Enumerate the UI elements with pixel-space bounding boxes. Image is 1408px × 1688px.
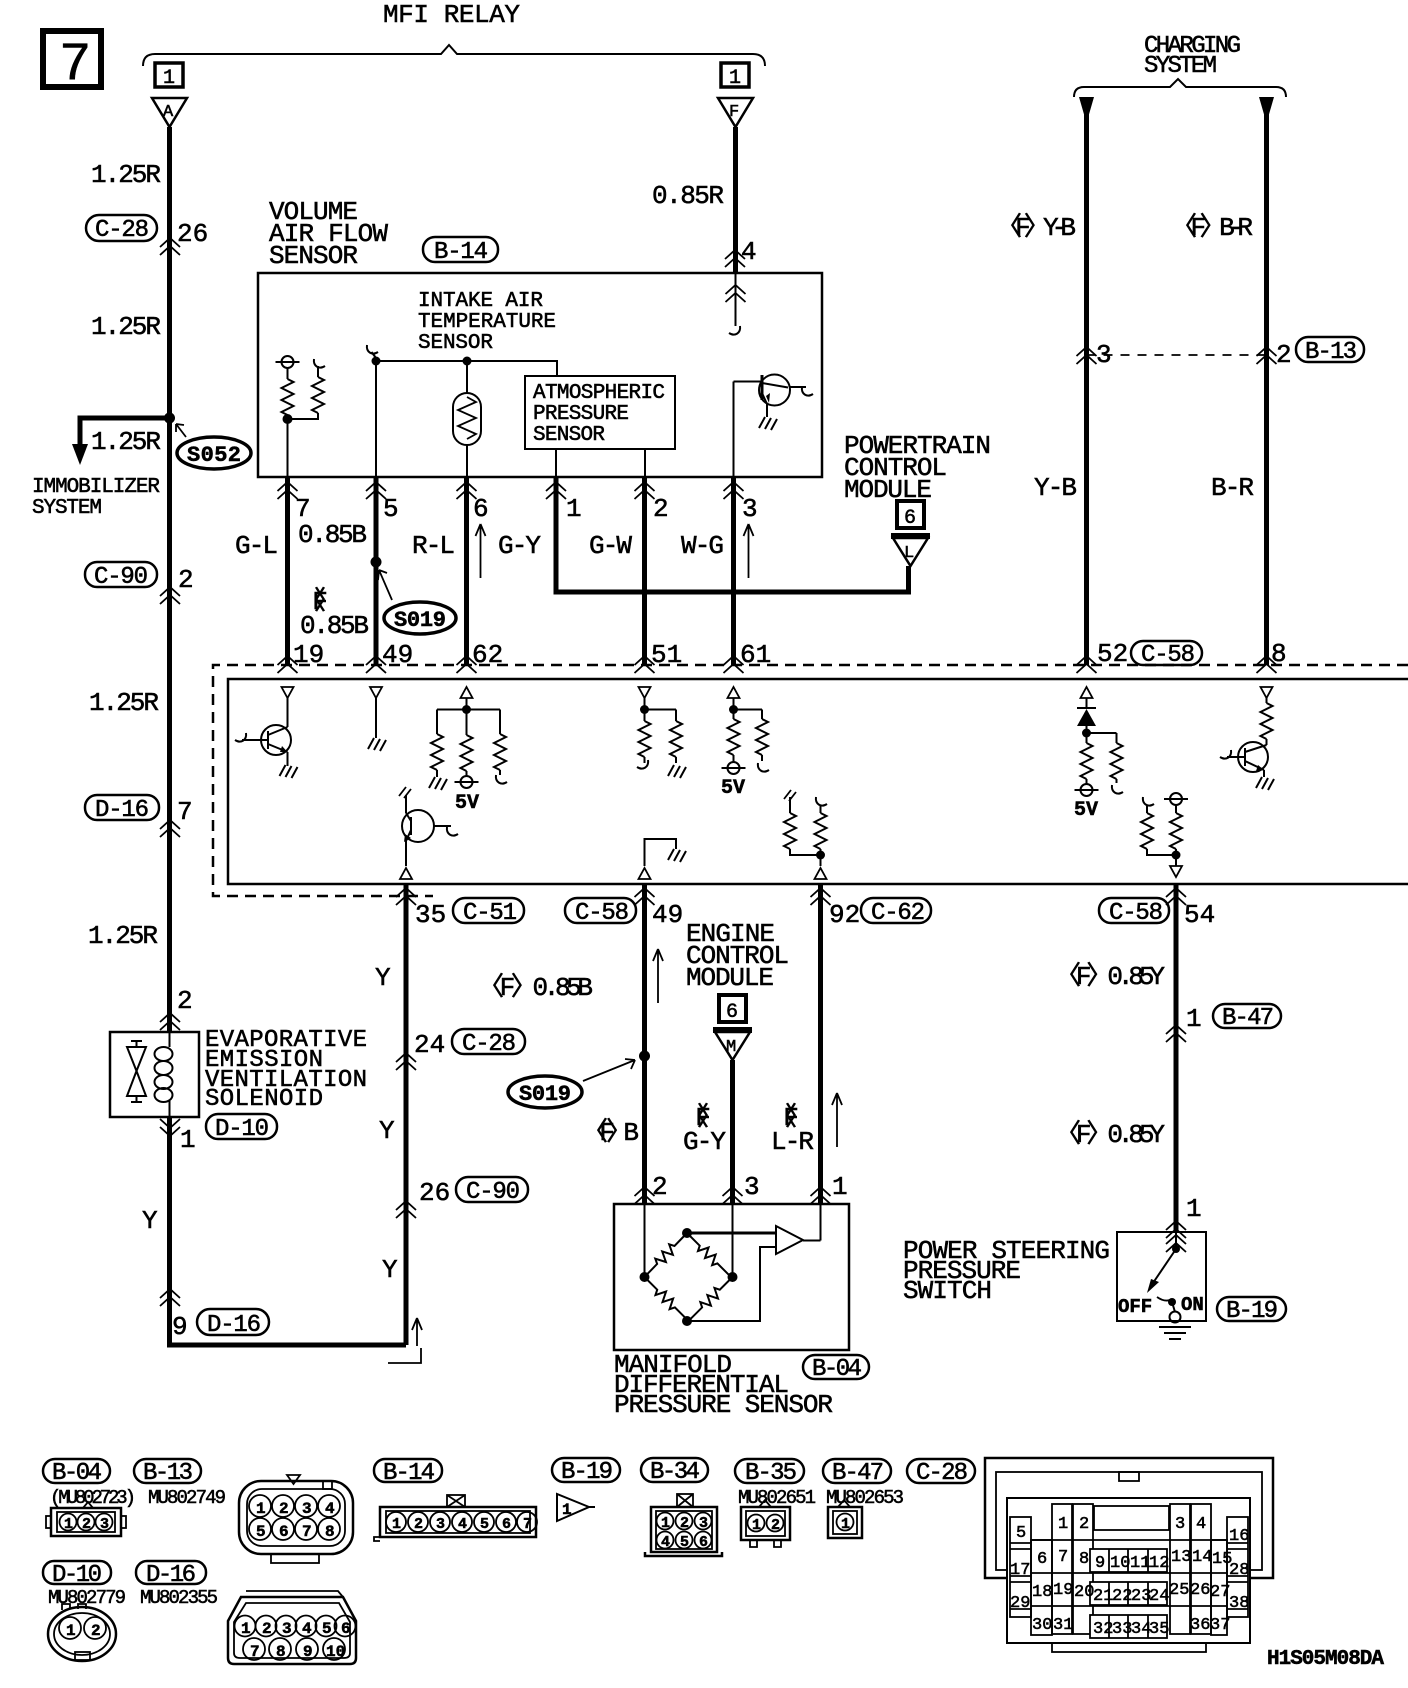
switch internals xyxy=(1118,1232,1204,1339)
svg-text:21: 21 xyxy=(1093,1587,1113,1606)
connector D-10 drawing xyxy=(48,1604,116,1661)
svg-text:Y: Y xyxy=(382,1255,398,1285)
svg-text:35: 35 xyxy=(415,900,446,930)
svg-text:B-R: B-R xyxy=(1211,473,1254,503)
svg-text:49: 49 xyxy=(382,640,413,670)
pin 5 wire with curl top xyxy=(367,345,378,358)
svg-text:MU802749: MU802749 xyxy=(148,1487,226,1509)
connector B-19 drawing (1-pin triangle) xyxy=(557,1494,595,1521)
connector C-58 capsule xyxy=(1099,898,1169,927)
svg-text:C-58: C-58 xyxy=(575,900,629,927)
frame number 7 box xyxy=(43,31,101,96)
svg-text:Y: Y xyxy=(379,1116,395,1146)
svg-text:OFF: OFF xyxy=(1118,1296,1152,1318)
svg-text:16: 16 xyxy=(1229,1527,1249,1546)
connector B-35 drawing (2-pin) xyxy=(741,1500,790,1547)
svg-text:3: 3 xyxy=(302,1500,312,1518)
svg-text:8: 8 xyxy=(276,1643,286,1661)
evaporative emission ventilation solenoid box xyxy=(110,1032,199,1117)
svg-text:27: 27 xyxy=(1210,1583,1230,1602)
svg-text:B-19: B-19 xyxy=(1226,1298,1278,1325)
svg-text:3: 3 xyxy=(282,1620,292,1638)
svg-text:4: 4 xyxy=(302,1620,312,1638)
connector chevron xyxy=(811,1187,831,1204)
svg-text:5: 5 xyxy=(322,1620,332,1638)
svg-text:〈F〉0.85Y: 〈F〉0.85Y xyxy=(1055,1120,1165,1150)
svg-text:11: 11 xyxy=(1130,1554,1150,1573)
center blank slot xyxy=(1094,1506,1169,1530)
wire F down to VAF sensor xyxy=(733,127,738,273)
svg-text:1: 1 xyxy=(1058,1515,1068,1534)
terminal triangle F xyxy=(718,98,753,127)
inline connector chevron xyxy=(160,1289,180,1306)
row separators xyxy=(1031,1540,1227,1606)
svg-text:8: 8 xyxy=(1271,639,1287,669)
svg-text:1: 1 xyxy=(180,1125,196,1155)
svg-text:5: 5 xyxy=(680,1534,689,1551)
svg-text:C-90: C-90 xyxy=(94,564,148,591)
svg-text:PRESSURE: PRESSURE xyxy=(533,403,629,426)
svg-text:B-04: B-04 xyxy=(52,1460,102,1487)
internal bus wire xyxy=(376,361,557,376)
svg-text:〈F〉B-R: 〈F〉B-R xyxy=(1171,213,1253,243)
transistor (ECM pin 35 driver) xyxy=(399,787,458,866)
wire ECM 49 down to MDP sensor xyxy=(642,884,647,1204)
svg-text:INTAKE AIR: INTAKE AIR xyxy=(418,290,543,313)
svg-text:18: 18 xyxy=(1032,1583,1052,1602)
wire A vertical (MFI relay to EVAP solenoid) xyxy=(167,127,172,1032)
svg-text:H1S05M08DA: H1S05M08DA xyxy=(1267,1648,1384,1671)
svg-text:〈F〉0.85Y: 〈F〉0.85Y xyxy=(1055,962,1165,992)
svg-text:1: 1 xyxy=(1186,1004,1202,1034)
svg-text:C-62: C-62 xyxy=(871,900,925,927)
svg-text:B-13: B-13 xyxy=(1305,339,1357,366)
manifold differential pressure sensor box xyxy=(614,1204,849,1350)
connector link dashed xyxy=(1087,354,1267,356)
svg-text:8: 8 xyxy=(1079,1550,1089,1569)
connector C-28 drawing (38-pin ECM connector) xyxy=(985,1458,1273,1652)
svg-text:C-58: C-58 xyxy=(1109,900,1163,927)
inline connector chevron xyxy=(396,1053,416,1070)
connector B-34 capsule (legend) xyxy=(641,1458,708,1486)
svg-text:1: 1 xyxy=(661,1515,670,1532)
diode (ECM pin 52) xyxy=(1077,698,1096,733)
connector ref box 1 (A) xyxy=(155,63,183,90)
svg-text:5: 5 xyxy=(1016,1524,1026,1543)
svg-text:4: 4 xyxy=(458,1516,467,1533)
connector B-04 capsule xyxy=(803,1355,869,1383)
ECM pin 61 input triangle xyxy=(728,687,740,698)
ECM pin 54 output triangle xyxy=(1170,866,1182,877)
svg-text:10: 10 xyxy=(326,1643,345,1661)
svg-text:1.25R: 1.25R xyxy=(91,427,161,457)
svg-text:10: 10 xyxy=(1110,1554,1130,1573)
svg-text:1.25R: 1.25R xyxy=(88,921,158,951)
svg-text:C-28: C-28 xyxy=(95,217,149,244)
connector C-28 capsule (legend) xyxy=(907,1459,975,1487)
connector D-10 capsule xyxy=(206,1114,277,1143)
terminal triangle M xyxy=(713,1030,752,1060)
splice S019 oval xyxy=(378,570,456,634)
connector B-35 capsule (legend) xyxy=(735,1459,804,1487)
svg-text:4: 4 xyxy=(661,1534,670,1551)
inline connector chevron xyxy=(1166,1025,1186,1042)
svg-text:17: 17 xyxy=(1010,1561,1030,1580)
svg-text:B-14: B-14 xyxy=(434,239,488,266)
svg-text:6: 6 xyxy=(473,494,489,524)
inline connector chevron xyxy=(160,820,180,837)
terminal triangle L xyxy=(891,536,930,566)
ECM pin 52 input triangle xyxy=(1081,687,1093,698)
inline connector chevron xyxy=(160,238,180,255)
svg-text:7: 7 xyxy=(177,797,193,827)
svg-text:G-Y: G-Y xyxy=(683,1127,726,1157)
solenoid valve symbol xyxy=(127,1040,146,1103)
ECM pin 35 output triangle xyxy=(400,868,412,879)
svg-text:5V: 5V xyxy=(721,777,745,800)
svg-text:7: 7 xyxy=(302,1523,312,1541)
ECM solid box xyxy=(228,679,1408,884)
direction arrow up xyxy=(476,524,486,578)
svg-text:14: 14 xyxy=(1192,1548,1212,1567)
svg-text:2: 2 xyxy=(91,1622,101,1640)
svg-text:19: 19 xyxy=(1053,1581,1073,1600)
svg-text:SOLENOID: SOLENOID xyxy=(205,1086,323,1113)
ECM pin 8 input triangle xyxy=(1261,687,1273,698)
transistor (VAF output) xyxy=(734,375,814,431)
svg-text:7: 7 xyxy=(1058,1548,1068,1567)
connector B-19 capsule xyxy=(1217,1297,1286,1325)
svg-text:51: 51 xyxy=(651,640,682,670)
svg-text:B-35: B-35 xyxy=(745,1460,797,1487)
connector B-47 capsule (legend) xyxy=(823,1459,891,1487)
svg-text:C-90: C-90 xyxy=(466,1179,520,1206)
wire pin5 to ECM 49 xyxy=(374,477,379,665)
svg-text:5: 5 xyxy=(383,494,399,524)
svg-text:1: 1 xyxy=(256,1500,266,1518)
svg-text:33: 33 xyxy=(1112,1620,1132,1639)
svg-text:9: 9 xyxy=(172,1312,188,1342)
svg-text:54: 54 xyxy=(1184,900,1215,930)
svg-text:MU802779: MU802779 xyxy=(48,1587,126,1609)
ECM pin 19 input triangle xyxy=(282,687,294,698)
connector D-10 capsule (legend) xyxy=(43,1561,111,1589)
bridge resistor (top-right) xyxy=(683,1229,734,1280)
svg-text:5V: 5V xyxy=(455,792,479,815)
charging wire B-R xyxy=(1259,97,1274,123)
svg-text:C-58: C-58 xyxy=(1141,642,1195,669)
svg-text:4: 4 xyxy=(1196,1515,1206,1534)
transistor (ECM pin 8) xyxy=(1220,742,1274,790)
svg-text:SWITCH: SWITCH xyxy=(903,1276,992,1306)
svg-text:31: 31 xyxy=(1053,1616,1073,1635)
resistor pair (ECM pin 54) xyxy=(1141,793,1188,866)
resistor xyxy=(494,734,506,770)
svg-text:Y-B: Y-B xyxy=(1034,473,1077,503)
svg-text:Y: Y xyxy=(142,1206,158,1236)
connector D-16 capsule xyxy=(197,1309,269,1339)
bridge resistor (top-left) xyxy=(640,1230,690,1282)
op-amp input wire (thick) xyxy=(687,1232,776,1235)
ECM pin 49 output triangle xyxy=(639,868,651,879)
svg-text:9: 9 xyxy=(1095,1554,1105,1573)
svg-text:S052: S052 xyxy=(187,443,241,468)
connector B-14 drawing (7-pin) xyxy=(374,1495,537,1541)
connector C-62 capsule xyxy=(861,898,931,927)
ECM entry chevrons xyxy=(278,656,298,673)
svg-text:1.25R: 1.25R xyxy=(89,688,159,718)
connector chevron xyxy=(635,1187,655,1204)
wire pin6 to ECM 62 xyxy=(464,477,469,665)
svg-text:SYSTEM: SYSTEM xyxy=(32,497,102,520)
svg-text:W-G: W-G xyxy=(681,531,724,561)
svg-text:B-47: B-47 xyxy=(1222,1005,1274,1032)
connector C-28 capsule xyxy=(86,215,157,244)
ECM pin 92 output triangle xyxy=(815,868,827,879)
ECM dashed boundary xyxy=(213,665,1408,896)
resistor (ECM pin 8) xyxy=(1261,698,1273,745)
svg-text:0.85B: 0.85B xyxy=(300,611,369,641)
svg-text:1: 1 xyxy=(752,1517,761,1534)
svg-text:30: 30 xyxy=(1032,1616,1052,1635)
svg-text:2: 2 xyxy=(178,565,194,595)
svg-text:B-04: B-04 xyxy=(812,1356,862,1383)
svg-text:19: 19 xyxy=(293,640,324,670)
5V reference xyxy=(455,776,479,788)
transistor (ECM pin 19) xyxy=(235,698,298,778)
svg-text:〈F〉0.85B: 〈F〉0.85B xyxy=(478,973,593,1003)
splice dot S019 xyxy=(639,1051,650,1062)
svg-text:0.85B: 0.85B xyxy=(298,520,367,550)
ECM bottom exit chevrons xyxy=(396,888,416,905)
svg-text:1: 1 xyxy=(562,1501,572,1519)
svg-text:〈F〉Y-B: 〈F〉Y-B xyxy=(996,213,1076,243)
svg-text:0.85R: 0.85R xyxy=(652,181,724,211)
svg-text:C-28: C-28 xyxy=(916,1460,968,1487)
svg-text:6: 6 xyxy=(726,1001,738,1024)
svg-text:A: A xyxy=(163,103,174,122)
bridge wires from pins xyxy=(645,1204,821,1277)
svg-text:G-W: G-W xyxy=(589,531,632,561)
svg-text:26: 26 xyxy=(419,1178,450,1208)
svg-text:M: M xyxy=(726,1038,736,1057)
svg-text:MU802355: MU802355 xyxy=(140,1587,218,1609)
left pin column xyxy=(1010,1517,1031,1617)
divider network (ECM pin 51) xyxy=(637,698,686,778)
svg-text:1: 1 xyxy=(392,1516,401,1533)
svg-text:PRESSURE SENSOR: PRESSURE SENSOR xyxy=(614,1390,833,1420)
svg-text:1.25R: 1.25R xyxy=(91,312,161,342)
svg-text:S019: S019 xyxy=(394,608,446,633)
svg-text:38: 38 xyxy=(1229,1594,1249,1613)
connector C-58 capsule xyxy=(1131,641,1202,669)
inline connector chevrons xyxy=(1077,347,1097,364)
svg-text:32: 32 xyxy=(1093,1620,1113,1639)
svg-text:6: 6 xyxy=(279,1523,289,1541)
svg-text:5V: 5V xyxy=(1074,799,1098,822)
svg-text:3: 3 xyxy=(436,1516,445,1533)
splice junction dot S052 xyxy=(164,413,175,424)
splice dot S019 xyxy=(371,557,382,568)
wire dot to pin 7 xyxy=(287,419,289,477)
svg-text:(MU802723): (MU802723) xyxy=(50,1487,136,1509)
mini slot groups xyxy=(1090,1549,1167,1572)
wire to junction dot xyxy=(288,413,319,419)
wire pin7 to ECM 19 xyxy=(285,477,290,665)
svg-text:1: 1 xyxy=(163,67,175,90)
svg-text:MODULE: MODULE xyxy=(686,963,774,993)
connector B-47 drawing (1-pin) xyxy=(828,1500,862,1538)
connector D-16 capsule xyxy=(85,795,159,824)
resistor (VAF second) with curl top xyxy=(314,359,325,377)
pin 3 wire inside VAF xyxy=(733,382,735,478)
svg-text:L-R: L-R xyxy=(771,1127,814,1157)
svg-text:1: 1 xyxy=(729,67,741,90)
connector B-19 capsule (legend) xyxy=(552,1458,620,1486)
bridge resistor (bottom-right) xyxy=(685,1273,736,1324)
svg-text:IMMOBILIZER: IMMOBILIZER xyxy=(32,476,160,499)
svg-text:1: 1 xyxy=(832,1172,848,1202)
svg-text:35: 35 xyxy=(1149,1620,1169,1639)
svg-text:SENSOR: SENSOR xyxy=(418,332,493,355)
connector B-13 drawing (8-pin) xyxy=(239,1475,353,1563)
connector C-58 capsule xyxy=(565,898,636,927)
svg-text:20: 20 xyxy=(1074,1583,1094,1602)
wire ECM 54 down to PS switch xyxy=(1174,884,1179,1232)
solenoid coil xyxy=(155,1032,173,1117)
svg-text:36: 36 xyxy=(1190,1616,1210,1635)
svg-text:12: 12 xyxy=(1149,1554,1169,1573)
svg-text:2: 2 xyxy=(177,986,193,1016)
svg-text:62: 62 xyxy=(472,640,503,670)
curl end xyxy=(496,775,507,784)
svg-text:B-19: B-19 xyxy=(561,1459,613,1486)
wire pin2 to ECM 51 xyxy=(642,477,647,665)
svg-text:2: 2 xyxy=(652,1172,668,1202)
connector D-16 drawing (10-pin) xyxy=(228,1591,356,1664)
inline connector chevron xyxy=(725,250,745,267)
svg-text:8: 8 xyxy=(325,1523,335,1541)
connector chevron xyxy=(723,1187,743,1204)
harness ref box 6 xyxy=(897,501,924,530)
svg-text:2: 2 xyxy=(262,1620,272,1638)
connector B-04 drawing xyxy=(46,1502,126,1536)
svg-text:Y: Y xyxy=(375,963,391,993)
ECM pin 49 input triangle xyxy=(370,687,382,698)
connector B-14 capsule (legend) xyxy=(374,1459,442,1487)
splice S019 oval xyxy=(508,1059,635,1108)
thermistor (IAT sensor) xyxy=(453,361,481,477)
ECM pin 62 input triangle xyxy=(461,687,473,698)
wire pin3 to ECM 61 xyxy=(731,477,736,665)
svg-text:5: 5 xyxy=(256,1523,266,1541)
svg-text:SENSOR: SENSOR xyxy=(269,241,358,271)
wire triangle M to MDP sensor xyxy=(730,1060,735,1204)
svg-text:D-10: D-10 xyxy=(215,1116,269,1143)
svg-text:24: 24 xyxy=(414,1030,445,1060)
svg-text:6: 6 xyxy=(1037,1550,1047,1569)
svg-text:ON: ON xyxy=(1181,1294,1204,1316)
svg-text:61: 61 xyxy=(740,640,771,670)
svg-text:S019: S019 xyxy=(519,1082,571,1107)
svg-text:MU802651: MU802651 xyxy=(738,1487,816,1509)
splice S052 oval xyxy=(176,424,251,469)
svg-text:28: 28 xyxy=(1229,1561,1249,1580)
ground hook (ECM pin 49 lower) xyxy=(645,839,687,866)
svg-text:B-14: B-14 xyxy=(383,1460,435,1487)
svg-text:37: 37 xyxy=(1210,1616,1230,1635)
svg-text:1: 1 xyxy=(566,494,582,524)
connector D-16 capsule (legend) xyxy=(136,1561,206,1589)
svg-text:3: 3 xyxy=(699,1515,708,1532)
charging system bracket xyxy=(1074,79,1286,97)
svg-text:26: 26 xyxy=(177,219,208,249)
svg-text:1: 1 xyxy=(64,1516,73,1533)
svg-text:13: 13 xyxy=(1171,1548,1191,1567)
bridge resistor (bottom-left) xyxy=(641,1273,692,1324)
svg-text:1: 1 xyxy=(66,1622,76,1640)
svg-text:B-47: B-47 xyxy=(832,1460,884,1487)
svg-text:3: 3 xyxy=(1175,1515,1185,1534)
op-amp xyxy=(776,1226,803,1254)
svg-text:B-34: B-34 xyxy=(650,1459,700,1486)
inline connector chevron xyxy=(160,587,180,604)
connector ref box 1 (F) xyxy=(721,63,749,90)
svg-text:9: 9 xyxy=(303,1643,313,1661)
svg-text:6: 6 xyxy=(341,1620,351,1638)
pin numbers xyxy=(1010,1515,1249,1639)
svg-text:〈F〉B: 〈F〉B xyxy=(582,1118,639,1148)
junction dot xyxy=(463,357,472,366)
svg-text:F: F xyxy=(729,103,739,122)
svg-text:2: 2 xyxy=(680,1515,689,1532)
svg-text:C-51: C-51 xyxy=(463,900,517,927)
wire ECM 35 down to corner xyxy=(404,884,409,1345)
connector C-51 capsule xyxy=(453,898,524,927)
wire EVAP to bottom corner xyxy=(170,1117,407,1345)
harness ref box 6 xyxy=(719,995,746,1024)
connector C-28 capsule xyxy=(452,1029,525,1058)
connector B-13 capsule (legend) xyxy=(134,1459,201,1487)
svg-text:D-16: D-16 xyxy=(146,1562,196,1589)
right pin column xyxy=(1227,1517,1248,1617)
connector B-34 drawing (6-pin) xyxy=(645,1494,722,1556)
resistor xyxy=(461,735,473,771)
svg-text:G-Y: G-Y xyxy=(498,531,541,561)
volume air flow sensor box xyxy=(258,273,822,477)
svg-text:24: 24 xyxy=(1149,1587,1169,1606)
svg-text:L: L xyxy=(904,544,914,563)
svg-text:MU802653: MU802653 xyxy=(826,1487,904,1509)
svg-text:25: 25 xyxy=(1169,1581,1189,1600)
VAF internal: flow meter circle terminal xyxy=(276,356,300,379)
svg-text:6: 6 xyxy=(904,507,916,530)
svg-text:2: 2 xyxy=(771,1517,780,1534)
svg-text:1.25R: 1.25R xyxy=(91,160,161,190)
svg-text:4: 4 xyxy=(325,1500,335,1518)
svg-text:B-13: B-13 xyxy=(143,1460,193,1487)
connector B-47 capsule xyxy=(1213,1004,1281,1032)
connector C-90 capsule xyxy=(85,562,157,591)
tall slots xyxy=(1052,1504,1072,1634)
svg-text:7: 7 xyxy=(250,1643,260,1661)
corner continuation hook xyxy=(388,1348,421,1363)
svg-text:SYSTEM: SYSTEM xyxy=(1144,53,1217,80)
svg-text:ATMOSPHERIC: ATMOSPHERIC xyxy=(533,382,665,405)
svg-text:1: 1 xyxy=(241,1620,251,1638)
op-amp lower input wire xyxy=(687,1247,776,1321)
svg-text:52: 52 xyxy=(1097,639,1128,669)
